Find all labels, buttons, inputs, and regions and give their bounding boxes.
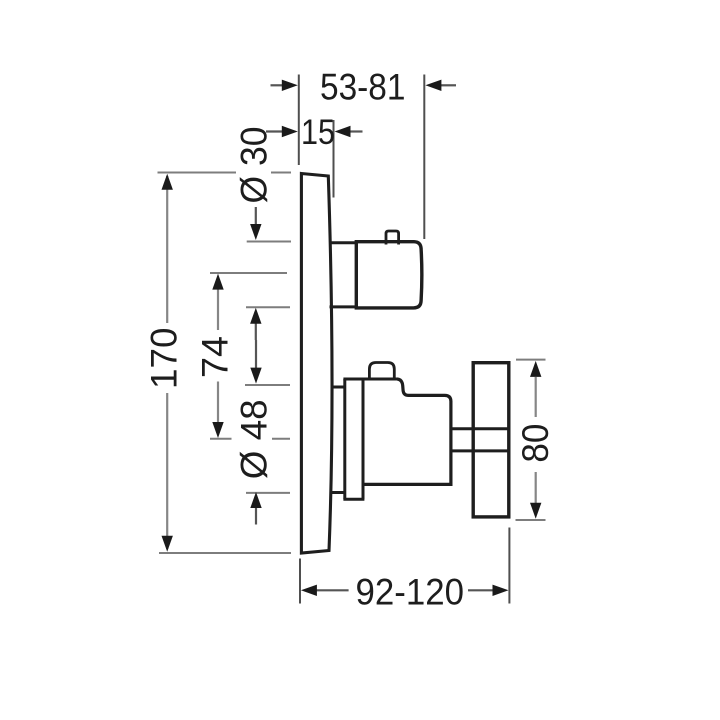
lower sleeve left edge (343, 379, 346, 499)
53-81 dim line right tail (441, 84, 456, 86)
arrowhead 15 right (points left) (335, 126, 351, 137)
arrowhead D30 down (points down) (250, 224, 261, 240)
cross handle bar (473, 363, 509, 517)
lower sleeve top shared with body shoulder (343, 378, 397, 381)
upper neck bottom line (330, 305, 357, 308)
ref line 80 top (516, 359, 546, 361)
ref line D48 top (245, 384, 290, 386)
170 dim line lower segment (166, 393, 168, 549)
ref line 74 bottom (center valve) (210, 438, 232, 440)
ref line bottom of plate (170) (159, 552, 291, 554)
arrowhead 80 bottom (points down) (530, 503, 541, 519)
handle stem bottom line (451, 449, 509, 452)
15 dim line left tail (266, 130, 284, 132)
15 dim line right tail (350, 130, 363, 132)
wall plate (side view) (301, 174, 332, 554)
extension line 92-120 left (299, 559, 301, 604)
ref line D48 bottom (246, 492, 290, 494)
D48 down-arrow tail (255, 340, 257, 369)
92-120 dim line right tail (468, 589, 497, 591)
svg-text:170: 170 (143, 328, 185, 390)
arrowhead D48 down (points down) (250, 368, 261, 384)
arrowhead 80 top (points up) (530, 361, 541, 377)
lower flange top line (331, 386, 345, 389)
arrowhead 170 bottom (points down) (162, 536, 173, 552)
extension line 92-120 right (508, 528, 510, 604)
arrowhead 92-120 right (points right) (493, 585, 509, 596)
80 dim line upper segment (535, 377, 537, 417)
upper thermostat handle box (356, 242, 422, 308)
80 dim line lower segment (535, 472, 537, 504)
arrowhead 53-81 left (points right) (282, 80, 298, 91)
ref line D30 bottom (246, 306, 290, 308)
D30 up-arrow tail (255, 321, 257, 340)
74 dim line lower segment (217, 382, 219, 423)
arrowhead 74 top (points up) (212, 274, 223, 290)
svg-text:74: 74 (194, 336, 236, 378)
53-81 dim line left tail (271, 84, 286, 86)
D48 up-arrow tail (255, 506, 257, 525)
svg-text:53-81: 53-81 (320, 66, 406, 108)
svg-text:15: 15 (301, 112, 335, 152)
svg-text:Ø 30: Ø 30 (232, 127, 274, 204)
170 dim line upper segment (166, 176, 168, 323)
arrowhead D48 up (points up) (250, 492, 261, 508)
svg-text:80: 80 (514, 424, 556, 463)
ref line 80 bottom (516, 519, 546, 521)
ref line top of plate (170 / D30) (158, 172, 237, 174)
arrowhead 53-81 right (points left) (425, 80, 441, 91)
arrowhead 92-120 left (points left) (301, 585, 317, 596)
ref line 74 top (center upper handle) (210, 272, 287, 274)
svg-text:Ø 48: Ø 48 (233, 399, 275, 479)
lower flange bottom line (331, 491, 345, 494)
92-120 dim line left tail (313, 589, 349, 591)
arrowhead 170 top (points up) (162, 174, 173, 190)
ref line D30 top (247, 241, 291, 243)
D30 down-arrow tail (255, 207, 257, 228)
valve body button (369, 363, 394, 381)
arrowhead 74 bottom (points down) (212, 422, 223, 438)
lower sleeve bottom (343, 498, 364, 501)
arrowhead D30 up (points up) (250, 308, 261, 324)
extension line right of 15 (333, 120, 335, 198)
lower sleeve right edge (362, 379, 365, 499)
svg-text:92-120: 92-120 (356, 571, 465, 613)
extension line right of 53-81 (423, 75, 425, 240)
upper neck top line (330, 241, 357, 244)
arrowhead 15 left (points right) (282, 126, 298, 137)
valve body outline (362, 379, 451, 484)
extension line wall left (53-81 / 15) (298, 75, 300, 166)
74 dim line upper segment (217, 286, 219, 330)
upper box button (386, 231, 399, 245)
handle stem top line (451, 427, 509, 430)
